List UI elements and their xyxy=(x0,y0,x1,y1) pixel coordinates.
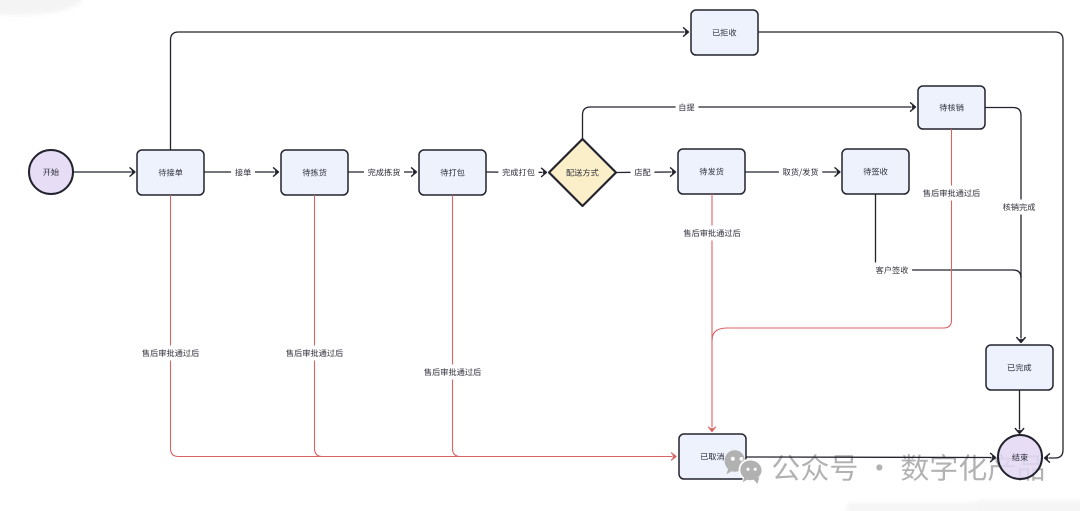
node 待签收 xyxy=(842,149,909,194)
node 待拣货 xyxy=(281,150,348,195)
node 已拒收 xyxy=(691,10,758,55)
wire 待发货→已取消 (red), label 售后审批通过后 xyxy=(680,194,745,432)
node 配送方式 (decision diamond) xyxy=(549,139,616,206)
small bubble tail xyxy=(753,477,759,484)
watermark WeChat icon xyxy=(725,450,764,485)
wire 待打包→已取消 (red), label 售后审批通过后 xyxy=(420,195,485,457)
wire 开始→待接单 xyxy=(73,168,135,176)
watermark next-row faint strip xyxy=(846,500,1080,511)
wire 待拣货→待打包, label 完成拣货 xyxy=(348,165,417,180)
watermark text 公众号 · 数字化产品 (under diagram) xyxy=(773,454,1043,481)
node 待打包 xyxy=(419,150,486,195)
watermark top-left faint wash xyxy=(0,0,82,15)
node 待核销 xyxy=(918,86,985,129)
node 待发货 xyxy=(678,149,745,194)
wire 已拒收→结束 (right side long) xyxy=(758,32,1063,462)
node 已取消 xyxy=(679,434,746,479)
wire 配送方式→待核销, label 自提 xyxy=(583,100,916,139)
node 结束 (end circle) xyxy=(998,435,1042,479)
small bubble xyxy=(740,461,761,483)
node 已完成 xyxy=(986,345,1053,390)
wire 待拣货→已取消 (red), label 售后审批通过后 xyxy=(282,195,347,457)
wire 配送方式→待发货, label 店配 xyxy=(616,165,676,180)
bubble eyes xyxy=(731,457,757,471)
small bubble white halo xyxy=(739,459,764,485)
wire 待接单→已取消 (red, trunk), label 售后审批通过后 xyxy=(138,195,676,460)
big bubble xyxy=(725,450,745,474)
wire 已完成→结束 xyxy=(1015,390,1023,434)
wire 待接单→待拣货, label 接单 xyxy=(204,165,279,180)
wire 待发货→待签收, label 取货/发货 xyxy=(745,165,840,180)
wire 待签收→已完成 merge, label 客户签收 xyxy=(872,194,1021,278)
wire 待核销→已取消 (red), label 售后审批通过后 xyxy=(712,129,984,341)
wire 待打包→配送方式, label 完成打包 xyxy=(486,165,547,180)
wire 已取消→结束 xyxy=(746,453,996,461)
node 待接单 xyxy=(137,150,204,195)
wire 待核销→已完成, label 核销完成 xyxy=(985,108,1039,343)
node 开始 (start circle) xyxy=(29,150,73,194)
wire 待接单→已拒收 xyxy=(171,28,689,150)
